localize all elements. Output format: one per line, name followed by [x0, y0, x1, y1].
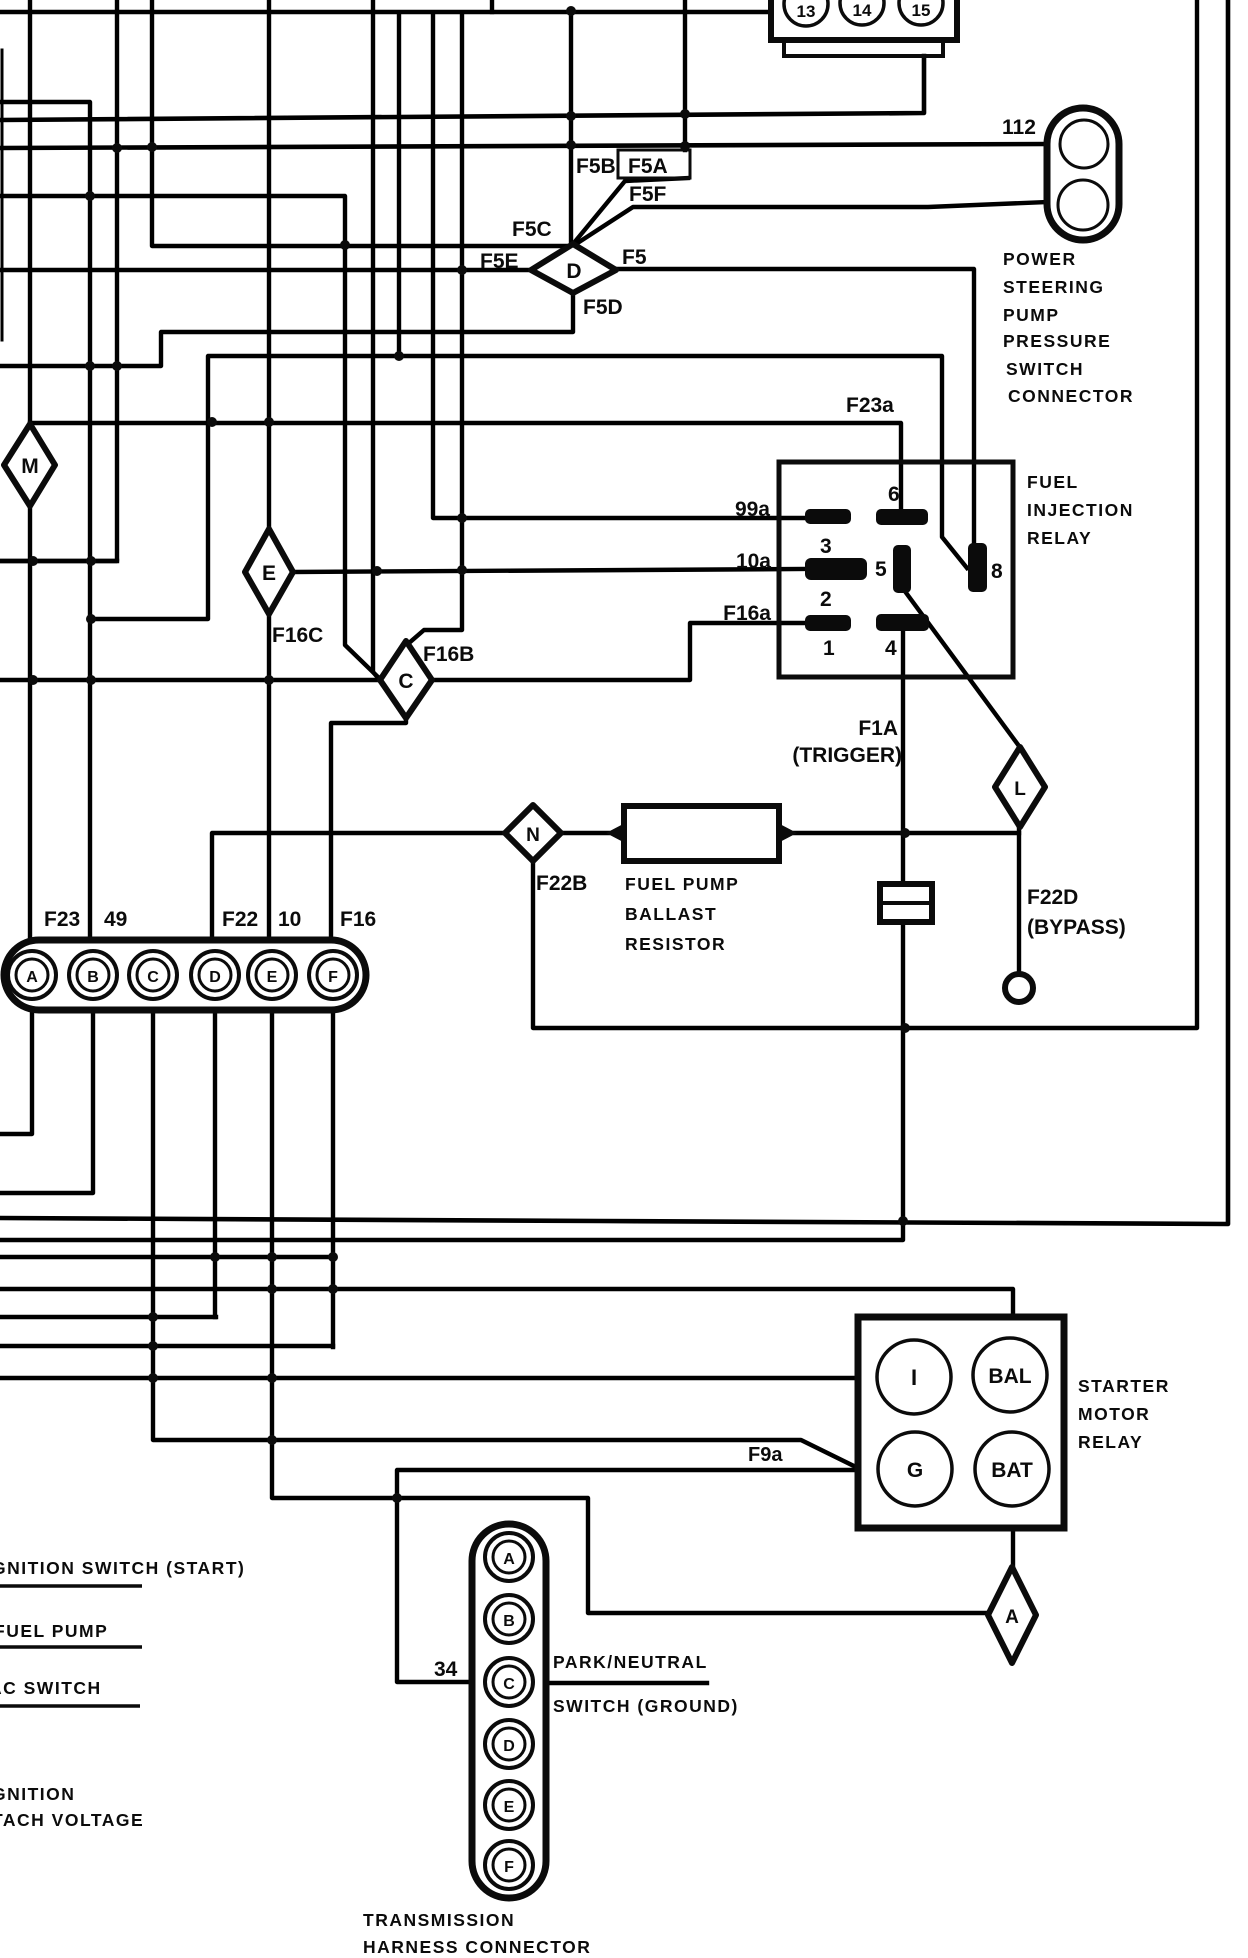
wire vertical x373 into node C left — [373, 0, 379, 679]
svg-text:49: 49 — [104, 908, 127, 931]
wire vertical x685 to F5A label box — [683, 0, 687, 150]
wire top bus y12 — [0, 10, 771, 14]
svg-text:TRANSMISSION: TRANSMISSION — [363, 1910, 515, 1930]
wire y1346 bus to pin F line — [0, 1344, 333, 1348]
svg-text:10: 10 — [278, 908, 301, 931]
svg-text:A: A — [503, 1551, 515, 1568]
wire y356 from x208 corner to x942 and diagonal to pin 8 — [90, 356, 967, 619]
svg-text:1: 1 — [823, 637, 835, 660]
svg-text:15: 15 — [912, 1, 931, 20]
svg-text:F16a: F16a — [723, 602, 771, 625]
svg-text:6: 6 — [888, 483, 900, 506]
main harness connector (horizontal oval A-F) — [4, 940, 366, 1010]
bypass terminal — [1005, 974, 1033, 1002]
svg-text:D: D — [503, 1738, 515, 1755]
svg-text:C: C — [398, 670, 413, 693]
svg-text:E: E — [267, 969, 278, 986]
connector pin D — [191, 951, 239, 999]
svg-text:BAT: BAT — [991, 1459, 1033, 1482]
wire y196 with corner down x345 and F16C diagonal into node C — [0, 196, 378, 677]
svg-text:RESISTOR: RESISTOR — [625, 934, 726, 954]
svg-text:F5A: F5A — [628, 155, 668, 178]
trans pin E — [485, 1781, 533, 1829]
trans pin A — [485, 1533, 533, 1581]
svg-text:C: C — [147, 969, 159, 986]
relay pin 99a bar — [805, 509, 851, 524]
wire F5A diagonal from hub to y147 line — [573, 178, 688, 244]
svg-text:B: B — [503, 1613, 515, 1630]
starter pin I — [877, 1340, 951, 1414]
starter motor relay K1 — [858, 1317, 1064, 1528]
svg-text:PRESSURE: PRESSURE — [1003, 331, 1111, 351]
wire right border x1228 down and left y1218 — [0, 2, 1228, 1224]
wire connector pin B down corner left — [0, 1009, 93, 1193]
wire F5E to node D left — [0, 268, 531, 272]
power steering pump pressure switch connector 112 — [1047, 108, 1119, 240]
svg-text:F23: F23 — [44, 908, 80, 931]
wire vertical x90 from corner y102 down to connector pin B — [0, 102, 90, 941]
svg-text:13: 13 — [797, 2, 816, 21]
relay pin 10a bar — [805, 558, 867, 580]
svg-text:4: 4 — [885, 637, 897, 660]
wire transmission pin C right — [546, 1681, 707, 1685]
svg-text:112: 112 — [1002, 116, 1036, 139]
wire left border stub — [1, 50, 4, 340]
svg-text:F5: F5 — [622, 246, 647, 269]
wire node N bottom loop right and up right border — [533, 2, 1197, 1028]
node E — [245, 529, 293, 614]
wire y147 to power steering connector top — [0, 144, 1047, 148]
svg-text:F22B: F22B — [536, 872, 587, 895]
relay pin 4 bar — [876, 614, 929, 631]
wire connector pin E down, to node A left vertex — [272, 1009, 988, 1613]
svg-text:A: A — [1005, 1607, 1019, 1628]
wire connector pin D up and right to node N — [212, 833, 505, 941]
svg-text:POWER: POWER — [1003, 249, 1077, 269]
wire node M bottom to connector pin A — [28, 506, 32, 941]
svg-text:E: E — [262, 562, 276, 585]
svg-text:FUEL PUMP: FUEL PUMP — [625, 874, 739, 894]
connector pin C — [129, 951, 177, 999]
wire node C bottom to connector pin F — [331, 717, 406, 941]
svg-text:F22D: F22D — [1027, 886, 1078, 909]
transmission harness connector (vertical oval A-F) — [472, 1524, 546, 1898]
wire vertical x30 above node M — [28, 0, 32, 424]
trans pin C — [485, 1658, 533, 1706]
svg-text:C: C — [503, 1676, 515, 1693]
svg-text:F5E: F5E — [480, 250, 519, 273]
connector pin A — [8, 951, 56, 999]
wire vertical x117 corner left at y561 — [0, 0, 117, 561]
svg-text:TACH VOLTAGE: TACH VOLTAGE — [0, 1810, 144, 1830]
svg-text:F5C: F5C — [512, 218, 552, 241]
svg-text:M: M — [21, 455, 39, 478]
connector pin B — [69, 951, 117, 999]
wire vertical x269 above node E — [267, 0, 271, 529]
wire relay pin 5 diagonal to node L — [904, 590, 1019, 746]
relay pin 5 bar — [893, 545, 911, 593]
wire y1289 bus corner down into starter relay — [0, 1289, 1013, 1317]
svg-text:10a: 10a — [736, 550, 771, 573]
svg-text:(TRIGGER): (TRIGGER) — [792, 744, 902, 767]
svg-text:RELAY: RELAY — [1078, 1432, 1143, 1452]
starter pin BAT — [975, 1432, 1049, 1506]
wire y1257 bus to pin F line — [0, 1255, 333, 1259]
wire from 13/14/15 connector pin down and left (y118) — [0, 56, 924, 120]
wire F5C hub vertical — [569, 11, 573, 244]
svg-text:D: D — [209, 969, 221, 986]
svg-text:34: 34 — [434, 1658, 458, 1681]
wire F5C horizontal into hub — [152, 0, 571, 246]
wire connector pin D down — [213, 1009, 217, 1317]
svg-text:FUEL: FUEL — [1027, 472, 1079, 492]
svg-text:3: 3 — [820, 535, 832, 558]
label power steering connector — [1003, 249, 1134, 406]
wire y1317 bus to pin D line — [0, 1315, 216, 1319]
label fuel injection relay — [1027, 472, 1134, 548]
svg-text:BALLAST: BALLAST — [625, 904, 717, 924]
relay pin 1 bar — [805, 615, 851, 631]
svg-text:E: E — [504, 1799, 515, 1816]
svg-text:F1A: F1A — [858, 717, 898, 740]
svg-text:14: 14 — [853, 1, 872, 20]
wire y561 bus — [0, 559, 117, 563]
svg-text:5: 5 — [875, 558, 887, 581]
svg-text:N: N — [526, 825, 540, 846]
svg-text:F5F: F5F — [629, 183, 667, 206]
svg-text:I: I — [911, 1365, 917, 1390]
svg-text:F5B: F5B — [576, 155, 616, 178]
fuel injection relay U1 — [779, 462, 1013, 677]
svg-text:STEERING: STEERING — [1003, 277, 1104, 297]
wire F5F diagonal and run to power steering bottom — [573, 202, 1047, 246]
wire connector pin A down corner left — [0, 1009, 32, 1134]
wire F5 from node D right, down x974 to relay pin 8 — [616, 269, 974, 543]
wire connector pin F down — [331, 1009, 335, 1347]
svg-text:F23a: F23a — [846, 394, 894, 417]
svg-text:MOTOR: MOTOR — [1078, 1404, 1150, 1424]
svg-text:PUMP: PUMP — [1003, 305, 1060, 325]
svg-text:AC SWITCH: AC SWITCH — [0, 1678, 102, 1698]
wire node L bottom to bypass terminal — [1017, 828, 1021, 972]
wire 10a from node E right to relay — [293, 569, 805, 572]
svg-text:INJECTION: INJECTION — [1027, 500, 1134, 520]
wire connector pin C down, F9a run to starter relay pin G — [153, 1009, 858, 1468]
wire F5D staircase from node D bottom — [0, 293, 573, 366]
svg-text:A: A — [26, 969, 38, 986]
fuse F1 — [880, 884, 932, 922]
wire 34 from starter relay left, down to transmission pin C — [397, 1470, 856, 1682]
trans pin B — [485, 1595, 533, 1643]
trans pin F — [485, 1841, 533, 1889]
wire vertical x433 corner right 99a into relay — [433, 13, 805, 518]
svg-text:99a: 99a — [735, 498, 770, 521]
node A — [988, 1567, 1036, 1663]
label fuel pump ballast resistor — [625, 874, 739, 954]
wire y1378 bus to starter relay pin I — [0, 1376, 858, 1380]
connector 13/14/15 (top) — [771, 0, 957, 56]
svg-text:BAL: BAL — [988, 1365, 1031, 1388]
fuel pump ballast resistor R1 — [606, 806, 797, 861]
svg-text:G: G — [907, 1459, 923, 1482]
svg-text:F5D: F5D — [583, 296, 623, 319]
wire F1A trigger from relay pin 4 down, corner left y1240 — [0, 631, 903, 1240]
starter pin BAL — [973, 1338, 1047, 1412]
wire vertical x462 F16B jog into node C top — [409, 13, 462, 643]
svg-text:STARTER: STARTER — [1078, 1376, 1170, 1396]
relay pin 8 bar — [968, 543, 987, 592]
node D — [531, 244, 616, 293]
node C — [380, 641, 432, 718]
wire starter relay bottom stub to node A — [1011, 1528, 1015, 1567]
starter pin G — [878, 1432, 952, 1506]
svg-text:2: 2 — [820, 588, 832, 611]
svg-text:SWITCH: SWITCH — [1006, 359, 1084, 379]
connector pin E — [248, 951, 296, 999]
wire vertical x399 tee into y356 — [397, 13, 401, 356]
wire F16a bus with jog up into relay pin 1 — [0, 623, 805, 680]
svg-text:B: B — [87, 969, 99, 986]
svg-text:SWITCH (GROUND): SWITCH (GROUND) — [553, 1696, 739, 1716]
label starter motor relay — [1078, 1376, 1170, 1452]
svg-text:(BYPASS): (BYPASS) — [1027, 916, 1126, 939]
svg-text:8: 8 — [991, 560, 1003, 583]
svg-text:F: F — [328, 969, 338, 986]
wire stub to top edge — [490, 0, 494, 12]
svg-text:F22: F22 — [222, 908, 258, 931]
node L — [995, 747, 1045, 827]
svg-text:GNITION SWITCH (START): GNITION SWITCH (START) — [0, 1558, 245, 1578]
svg-text:F: F — [504, 1859, 514, 1876]
svg-text:F16: F16 — [340, 908, 376, 931]
label F5A with box — [618, 150, 690, 178]
svg-text:F9a: F9a — [748, 1444, 783, 1466]
svg-text:PARK/NEUTRAL: PARK/NEUTRAL — [553, 1652, 708, 1672]
node M — [4, 424, 55, 506]
wire node N to ballast resistor — [561, 831, 608, 835]
wire ballast resistor to bypass drop — [795, 831, 1019, 835]
svg-text:F16C: F16C — [272, 624, 323, 647]
svg-text:F16B: F16B — [423, 643, 474, 666]
svg-text:RELAY: RELAY — [1027, 528, 1092, 548]
trans pin D — [485, 1720, 533, 1768]
svg-text:FUEL PUMP: FUEL PUMP — [0, 1621, 108, 1641]
wire node E bottom to connector pin E — [269, 614, 272, 951]
svg-text:GNITION: GNITION — [0, 1784, 75, 1804]
relay pin 6 bar — [876, 509, 928, 525]
wire F23a from node M top to relay pin 6 — [30, 423, 901, 509]
node N — [505, 805, 561, 861]
svg-text:D: D — [566, 260, 581, 283]
svg-text:HARNESS CONNECTOR: HARNESS CONNECTOR — [363, 1937, 591, 1957]
connector pin F — [309, 951, 357, 999]
svg-text:L: L — [1014, 779, 1026, 800]
svg-text:CONNECTOR: CONNECTOR — [1008, 386, 1134, 406]
